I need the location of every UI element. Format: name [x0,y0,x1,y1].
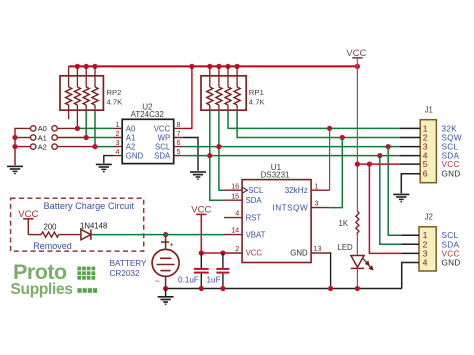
wire U2 WP pin7 to ground [183,138,198,171]
svg-text:WP: WP [158,133,171,142]
wire J2 SDA drop (green) [380,156,402,245]
svg-text:6: 6 [423,169,428,179]
svg-text:AT24C32: AT24C32 [131,110,165,119]
wire U1 GND pin13 down to ground rail [329,253,330,289]
J2 pin labels [442,231,461,267]
label LED [338,243,354,252]
svg-text:1: 1 [315,181,319,190]
label RP1 [249,88,266,106]
svg-text:VCC: VCC [246,249,263,258]
svg-text:VCC: VCC [442,249,460,258]
wire INTSQW U1 pin3 to SQW row (green) [329,138,342,208]
svg-text:5: 5 [177,147,181,156]
svg-text:VCC: VCC [154,124,171,133]
junction dots VCC row [355,162,372,167]
svg-text:1: 1 [116,120,120,129]
svg-text:VBAT: VBAT [246,230,266,239]
wire SDA row U2 pin5 to J1 pin4 (green) [183,155,400,157]
svg-text:A2: A2 [38,142,47,151]
svg-text:16: 16 [231,181,239,190]
labels BATTERY CR2032 [110,259,148,278]
svg-text:INTSQW: INTSQW [272,204,308,213]
svg-text:2: 2 [116,129,120,138]
junction dots SCL/SDA rows [207,126,391,158]
label Removed [33,241,72,251]
svg-text:SDA: SDA [154,152,171,161]
svg-text:4: 4 [423,258,428,268]
svg-text:SDA: SDA [246,196,263,205]
J1 pin stubs (black) [400,128,420,164]
wire SCL row U2 pin6 to J1 pin3 (green) [183,146,400,148]
power symbol VCC charge [18,209,38,235]
junction dot VBAT at battery [163,232,168,237]
svg-text:RP2: RP2 [107,88,122,97]
J2 GND pin4 wire down to rail [402,263,419,289]
svg-text:A2: A2 [126,143,136,152]
IC U2 AT24C32 [122,102,174,163]
jumper pads A0 A1 A2 [31,126,58,150]
J1 pin labels [442,124,462,178]
svg-text:GND: GND [442,259,461,268]
svg-text:J2: J2 [425,213,433,222]
svg-text:5: 5 [423,159,428,169]
svg-text:SCL: SCL [248,186,264,195]
svg-text:DS3231: DS3231 [261,171,290,180]
svg-text:Removed: Removed [33,241,72,251]
wire ground rail (black) [166,288,402,290]
label 200 [44,223,58,232]
ground at A-pads [7,166,23,173]
IC U1 DS3231 [242,163,311,263]
wire SCL pullup RP1-2 down to U1 pin16 (green) [219,110,224,190]
svg-text:A1: A1 [38,133,47,142]
svg-text:4: 4 [116,147,120,156]
svg-text:3: 3 [315,199,319,208]
wire SQW net RP1-4 to J1 pin2 (green) [237,110,400,137]
wire 32kHz U1 pin1 up to 32K row (gray) [328,128,330,190]
svg-text:SCL: SCL [442,143,459,152]
svg-text:A0: A0 [126,124,136,133]
resistor network RP2 4.7K [60,66,103,128]
LED emission arrows [363,259,373,270]
capacitor C1 0.1uF [194,253,209,289]
label 0.1uF [178,276,199,285]
ground at battery [158,289,174,305]
svg-text:SDA: SDA [442,240,460,249]
svg-text:J1: J1 [425,106,433,115]
wire J2 SCL drop (green) [388,147,401,236]
wire VCC rail [69,65,358,67]
svg-text:A1: A1 [126,133,136,142]
wire 32K net RP1-3 to J1 pin1 (green) [228,110,400,128]
logo ProtoSupplies [11,260,73,298]
label 1N4148 [80,221,107,230]
svg-text:7: 7 [177,129,181,138]
svg-text:+: + [169,240,174,249]
J2 pin stubs (black) [401,235,419,253]
J2 pin numbers [423,230,428,267]
svg-text:200: 200 [44,223,58,232]
labels A0 A1 A2 [38,124,47,151]
resistor network RP1 4.7K [201,66,246,110]
svg-text:BATTERY: BATTERY [110,259,148,268]
svg-text:SCL: SCL [155,143,171,152]
svg-text:8: 8 [177,120,181,129]
svg-text:~: ~ [155,277,160,286]
J1 GND pin6 wire to ground [401,174,420,194]
connector J2 [419,213,436,271]
junction dots address rows [12,126,97,149]
svg-text:CR2032: CR2032 [110,269,140,278]
svg-text:15: 15 [231,191,239,200]
power symbol VCC top [346,48,366,67]
wire VCC drop to LED branch (pale maroon) [356,66,358,211]
svg-text:SQW: SQW [442,134,462,143]
U1 pin labels [246,186,309,258]
svg-text:SCL: SCL [442,231,459,240]
wire A0/A1/A2 pad rows (maroon) [15,128,95,165]
svg-text:32kHz: 32kHz [285,186,308,195]
capacitor C2 1uF [216,253,229,289]
LED [351,232,364,289]
wire VBAT net diode to U1 pin14 (green) [92,234,224,236]
svg-text:1K: 1K [339,219,349,228]
svg-text:1uF: 1uF [207,276,221,285]
svg-text:6: 6 [177,138,181,147]
label 1uF [207,276,221,285]
power symbol VCC mid [191,205,211,216]
wire J2 VCC drop (red) [369,164,401,253]
diode 1N4148 [81,229,91,239]
battery polarity marks [155,240,174,286]
svg-text:RP1: RP1 [249,88,264,97]
svg-text:4.7K: 4.7K [107,97,124,106]
label RP2 [107,88,124,106]
battery charge circuit dashed box [11,198,144,251]
ground at U2 pin 4 [96,164,112,171]
U1 clock mark on SCL [243,188,248,193]
svg-text:4: 4 [235,209,239,218]
U1 pin stubs [224,190,329,253]
junction dots VCC node [199,250,226,255]
svg-text:GND: GND [290,249,308,258]
svg-text:Battery Charge Circuit: Battery Charge Circuit [44,201,135,211]
resistor 1K [356,211,359,233]
svg-text:3: 3 [116,138,120,147]
connector J1 [420,106,436,183]
wire U2 VCC pin8 to rail (red) [183,66,192,128]
svg-text:Supplies: Supplies [11,281,73,298]
J1 pin numbers [423,123,428,178]
U2 pin numbers [116,120,181,156]
svg-text:13: 13 [314,244,322,253]
svg-text:A0: A0 [38,124,47,133]
wire VCC row to J1 pin5 (red) [357,163,400,165]
svg-text:1N4148: 1N4148 [80,221,107,230]
junction dots on VCC rail [75,64,360,69]
resistor 200 [28,232,81,237]
U2 GND pin4 wire to ground [104,156,113,164]
svg-text:RST: RST [246,213,262,222]
ground at U2 WP [190,172,206,179]
svg-text:GND: GND [442,170,461,179]
svg-text:14: 14 [231,226,239,235]
svg-text:32K: 32K [442,124,458,133]
svg-text:4.7K: 4.7K [249,97,266,106]
junction dots ground rail [163,286,360,291]
U2 pin labels [126,124,171,160]
svg-text:VCC: VCC [442,160,460,169]
svg-text:GND: GND [126,152,144,161]
wire RP2 outputs to address rows (green) [77,110,113,146]
battery B1 CR2032 [152,235,179,289]
svg-text:LED: LED [338,243,354,252]
U1 pin numbers [231,181,321,253]
wire VCC mid drop (red) [200,214,202,253]
wire SDA pullup RP1-1 down to U1 pin15 (green) [210,110,224,200]
svg-text:0.1uF: 0.1uF [178,276,199,285]
label 1K [339,219,349,228]
wire VCC node row to U1 pin2 (red) [201,252,224,254]
label Battery Charge Circuit [44,201,135,211]
logo squares [77,267,97,293]
U2 pin stubs [113,128,183,155]
svg-text:2: 2 [235,244,239,253]
ground at J1 [393,194,409,201]
